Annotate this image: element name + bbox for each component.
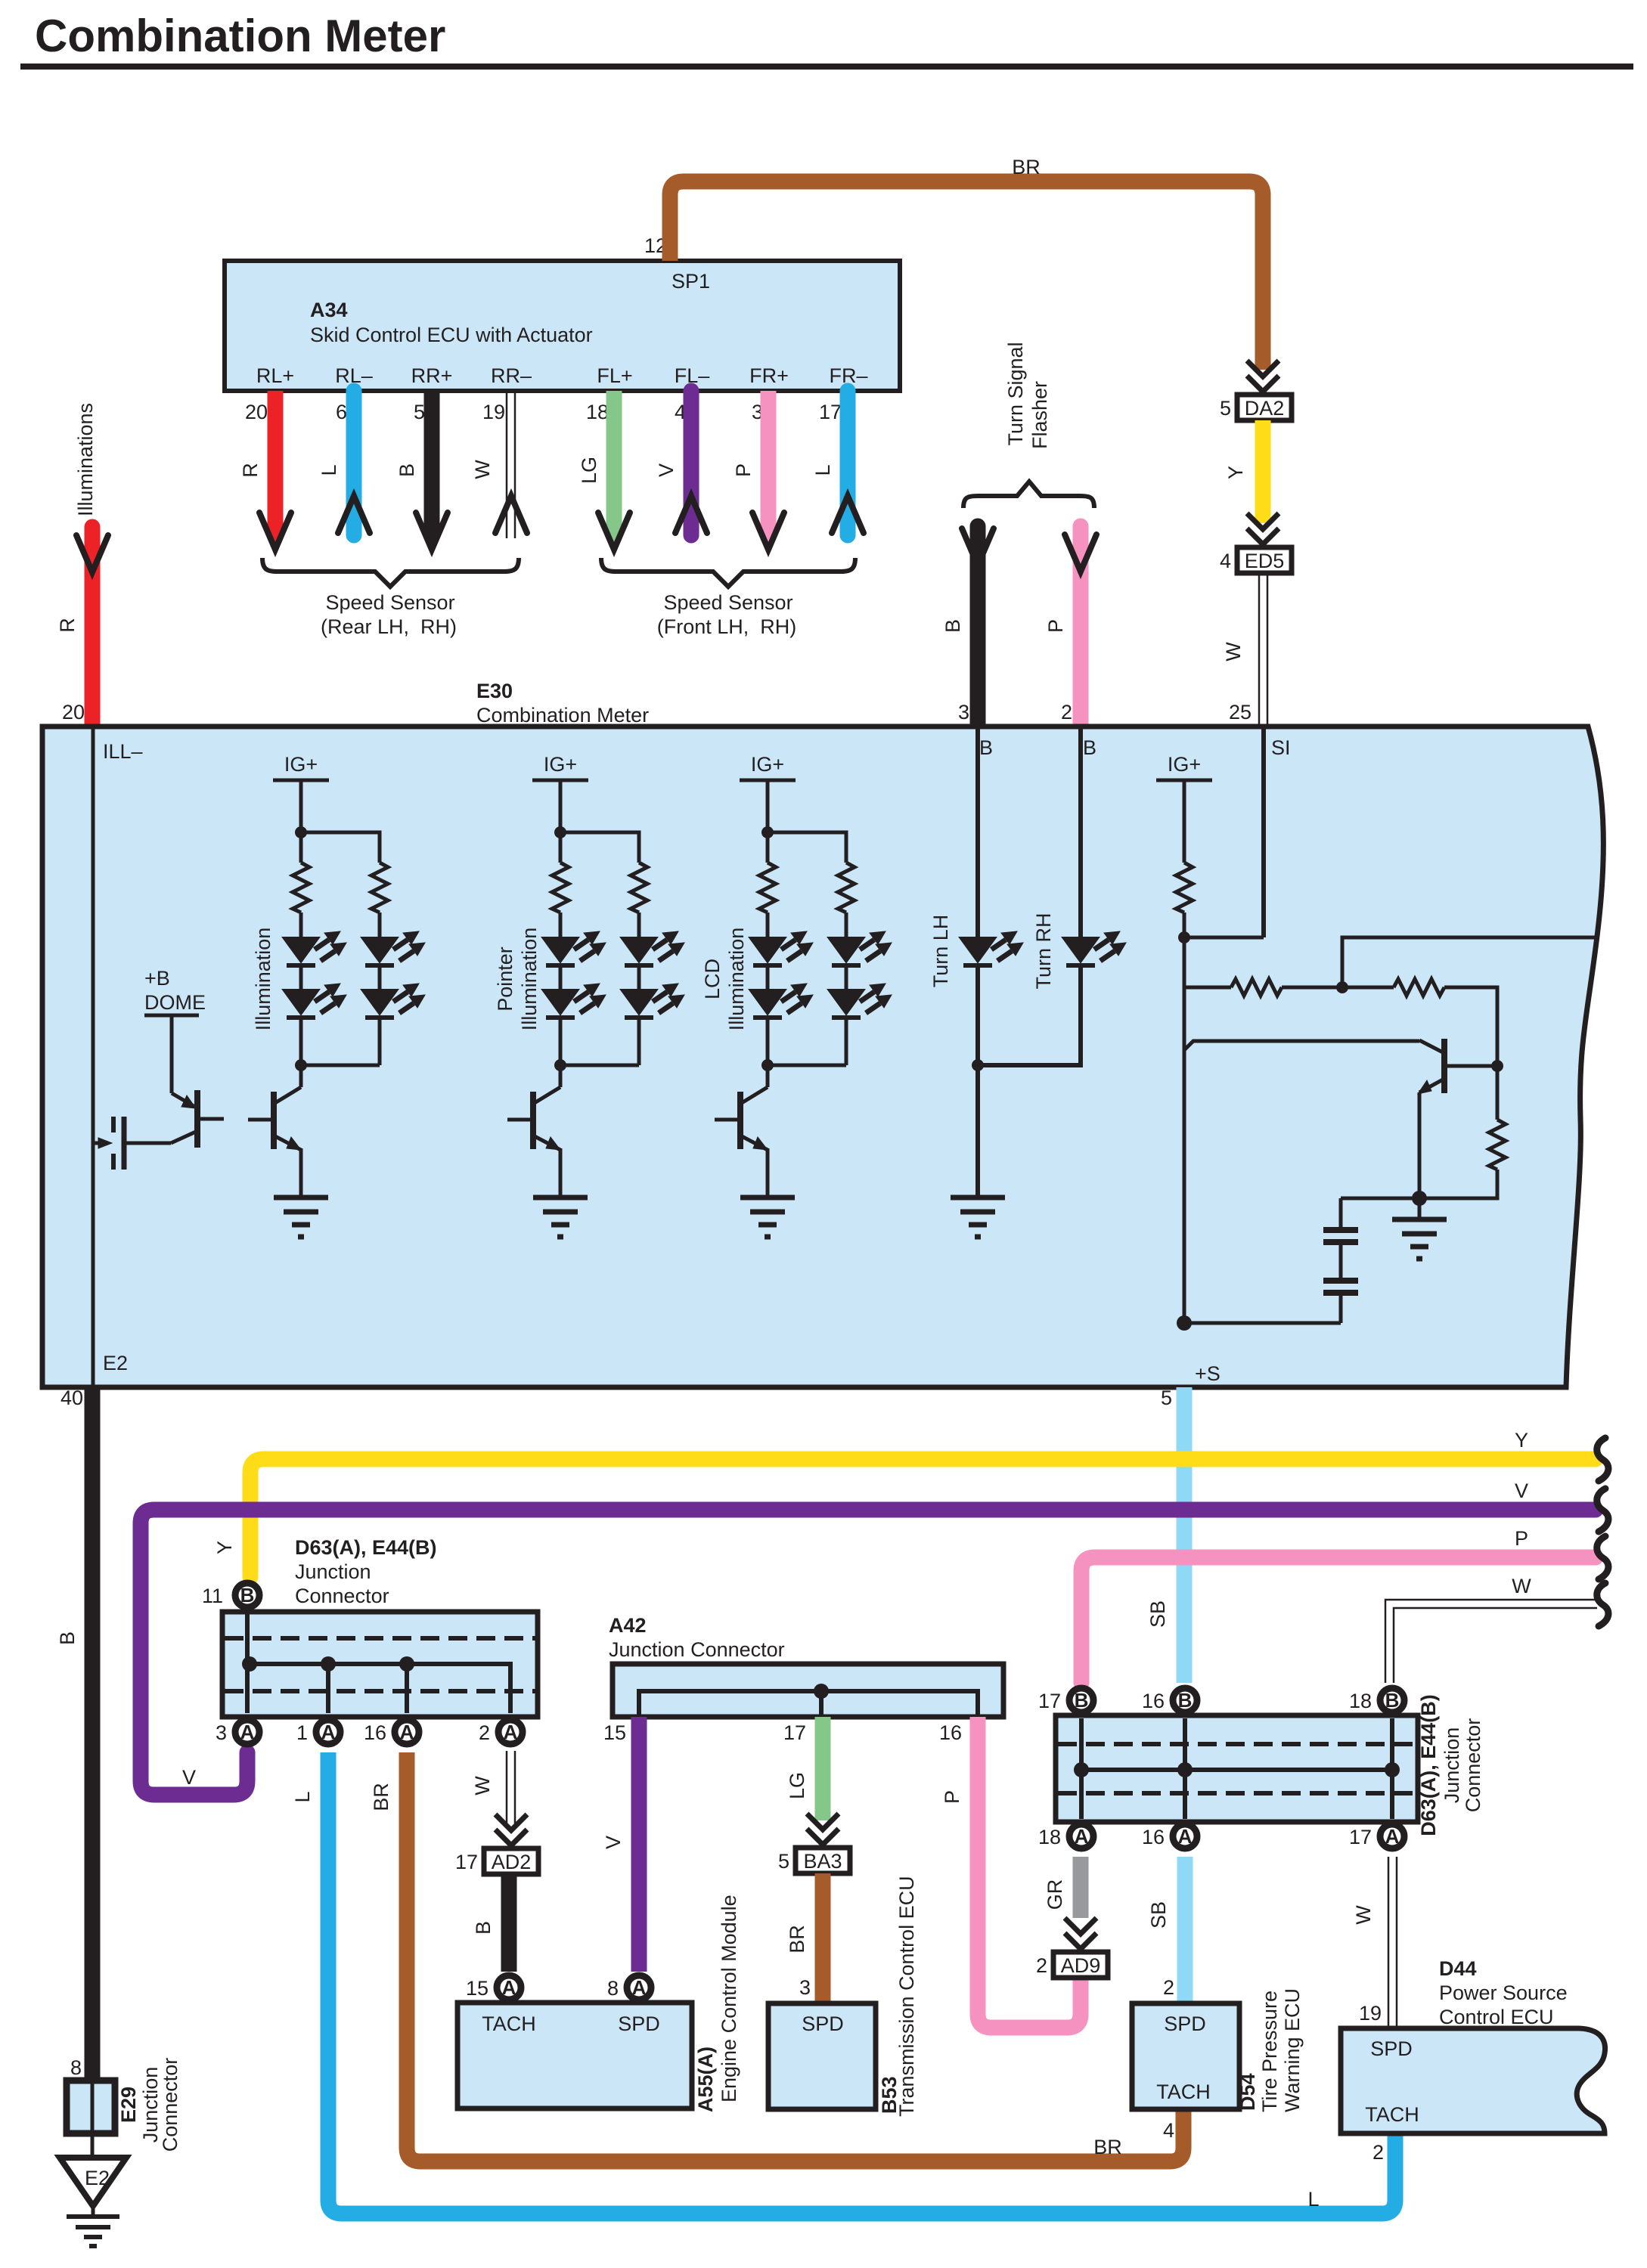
- transistor Q Pointer Illumination NPN: [507, 1087, 560, 1150]
- svg-text:W: W: [471, 1776, 494, 1795]
- svg-text:Skid Control ECU with Actuator: Skid Control ECU with Actuator: [310, 324, 593, 346]
- wire branch to second column LCD Illumination: [768, 832, 846, 863]
- label Turn Signal Flasher: [1004, 342, 1051, 449]
- pin circle 2 A: [479, 1720, 523, 1744]
- resistor R3 horizontal: [1231, 979, 1282, 996]
- connector ED5: [1237, 547, 1292, 573]
- svg-text:Combination Meter: Combination Meter: [476, 704, 649, 727]
- label BR on wire from D54 TACH pin 4: [1093, 2136, 1122, 2158]
- svg-text:3: 3: [216, 1721, 227, 1744]
- pin circle 11 B: [235, 1583, 259, 1607]
- svg-text:Control ECU: Control ECU: [1439, 2006, 1554, 2028]
- LED D2 Pointer Illumination: [542, 984, 606, 1018]
- wire LG from A42 pin 17: [786, 1717, 823, 1820]
- svg-text:RL+: RL+: [256, 364, 294, 387]
- wire node B up and right to edge: [1342, 937, 1597, 987]
- junction dot right bus 18: [1385, 1762, 1400, 1777]
- node IG+ right: [1156, 753, 1212, 780]
- double arrow into DA2: [1247, 361, 1279, 392]
- svg-text:ILL–: ILL–: [103, 740, 143, 763]
- wire resistor to LED right Illumination: [378, 912, 382, 937]
- wire L from pin 1A to D44 TACH pin 2: [291, 1752, 1395, 2214]
- svg-text:TACH: TACH: [1365, 2103, 1419, 2126]
- label D63(A), E44(B) Junction Connector left: [295, 1536, 437, 1607]
- bus wire A42: [639, 1691, 978, 1715]
- svg-text:E2: E2: [103, 1352, 128, 1374]
- arrow up on L wire: [338, 496, 370, 533]
- box D63 E44 junction connector left: [222, 1612, 538, 1717]
- title rule: [20, 64, 1633, 70]
- pin circle 8 A at A55: [607, 1975, 651, 2000]
- svg-text:Y: Y: [1224, 466, 1247, 479]
- wire W from RR- pin 19: [471, 391, 515, 538]
- svg-text:P: P: [732, 463, 755, 477]
- LED D2 Illumination: [283, 984, 346, 1018]
- node +B DOME bar: [144, 1014, 199, 1018]
- wire LED chain right LCD Illumination: [845, 965, 848, 1065]
- node IG+ Illumination: [273, 753, 329, 780]
- svg-text:20: 20: [62, 701, 85, 723]
- svg-text:V: V: [602, 1836, 625, 1849]
- wire IG+ to junction Pointer Illumination: [559, 780, 563, 863]
- svg-text:4: 4: [1220, 550, 1231, 572]
- wire LED chain left Pointer Illumination: [559, 965, 563, 1087]
- pin circle 15 A at A55: [466, 1975, 521, 2000]
- svg-text:6: 6: [336, 401, 347, 423]
- resistor R left Illumination: [293, 863, 309, 912]
- svg-text:E30: E30: [476, 680, 513, 702]
- LED D2 LCD Illumination: [749, 984, 813, 1018]
- svg-text:P: P: [1044, 619, 1067, 633]
- svg-text:V: V: [655, 463, 678, 477]
- wire resistor to LED right LCD Illumination: [845, 912, 848, 937]
- wire Turn RH to join: [978, 965, 1081, 1065]
- pin circle 16 A: [364, 1720, 419, 1744]
- svg-text:17: 17: [455, 1851, 478, 1873]
- svg-text:ED5: ED5: [1245, 550, 1285, 572]
- svg-text:B: B: [1083, 736, 1096, 759]
- bus line left junction connector: [245, 1614, 250, 1713]
- junction dot D: [1412, 1191, 1427, 1206]
- transistor MOSFET dimmer Q1: [93, 1117, 171, 1170]
- svg-text:Transmission Control ECU: Transmission Control ECU: [895, 1876, 918, 2117]
- svg-text:16: 16: [1142, 1690, 1165, 1712]
- svg-text:FL+: FL+: [597, 364, 632, 387]
- wave break V: [1597, 1489, 1608, 1532]
- svg-text:BR: BR: [1093, 2136, 1122, 2158]
- wire V lower section: [141, 1479, 1596, 1795]
- LED D4 LCD Illumination: [828, 984, 892, 1018]
- svg-text:L: L: [291, 1791, 314, 1802]
- svg-text:17: 17: [783, 1721, 806, 1744]
- svg-text:SPD: SPD: [618, 2012, 660, 2035]
- svg-text:W: W: [1222, 642, 1245, 661]
- svg-text:RR–: RR–: [491, 364, 532, 387]
- wire P turn signal to pin 2: [1044, 526, 1081, 727]
- svg-text:W: W: [471, 460, 494, 479]
- wire BR from BA3 to B53: [786, 1873, 823, 2003]
- svg-text:IG+: IG+: [751, 753, 784, 776]
- wire B turn signal to pin 3: [941, 526, 978, 727]
- svg-text:B: B: [56, 1631, 79, 1645]
- wire R from RL+ pin 20: [239, 391, 275, 531]
- wave break W: [1597, 1583, 1608, 1626]
- svg-text:18: 18: [1038, 1826, 1061, 1848]
- connector DA2: [1237, 395, 1292, 420]
- wire ILL- vertical: [91, 727, 95, 1387]
- svg-text:LG: LG: [578, 457, 600, 484]
- junction dot A42: [814, 1684, 829, 1699]
- wire resistor to LED left Pointer Illumination: [559, 912, 563, 937]
- connector AD9: [1053, 1952, 1108, 1978]
- svg-text:E2: E2: [85, 2167, 110, 2189]
- resistor R IG+ right: [1176, 863, 1193, 912]
- LED Turn LH: [960, 931, 1023, 965]
- pin circle 17 B right connector: [1038, 1688, 1093, 1712]
- double arrow into ED5: [1247, 513, 1279, 544]
- junction dot LCD Illumination: [761, 826, 774, 838]
- wire P from A42 pin 16 to AD9: [941, 1717, 1081, 2028]
- LED D1 Illumination: [283, 931, 346, 965]
- svg-text:IG+: IG+: [1168, 753, 1201, 776]
- svg-text:SI: SI: [1271, 736, 1291, 759]
- pin circle 3 A: [216, 1720, 259, 1744]
- wire BR from SP1 pin 12 to DA2: [670, 156, 1263, 370]
- resistor R right LCD Illumination: [838, 863, 855, 912]
- svg-text:FR+: FR+: [749, 364, 789, 387]
- svg-text:1: 1: [296, 1721, 308, 1744]
- svg-text:B: B: [472, 1921, 495, 1935]
- svg-text:3: 3: [799, 1976, 811, 1999]
- box E30 Combination Meter: [42, 727, 1603, 1387]
- arrow down on P wire: [761, 528, 775, 544]
- svg-text:DA2: DA2: [1245, 397, 1285, 420]
- wave break Y: [1597, 1438, 1608, 1481]
- box B53 Transmission Control ECU: [768, 2003, 876, 2109]
- dashed lines left junction connector: [225, 1638, 535, 1691]
- wave break P: [1597, 1536, 1608, 1579]
- wire Y lower section: [213, 1429, 1596, 1577]
- resistor R right Illumination: [371, 863, 388, 912]
- svg-text:A42: A42: [609, 1614, 647, 1637]
- svg-text:RR+: RR+: [411, 364, 453, 387]
- pin circle 16 A right connector: [1142, 1824, 1197, 1848]
- svg-text:Warning ECU: Warning ECU: [1281, 1988, 1304, 2112]
- label A55(A) Engine Control Module: [694, 1895, 740, 2112]
- svg-text:A55(A): A55(A): [694, 2046, 717, 2112]
- svg-text:Engine Control Module: Engine Control Module: [718, 1895, 740, 2102]
- transistor Q LCD Illumination NPN: [715, 1087, 768, 1150]
- svg-text:2: 2: [1163, 1976, 1174, 1999]
- resistor R5 vertical: [1489, 1120, 1506, 1170]
- bus wire and taps: [250, 1664, 510, 1713]
- LED D3 LCD Illumination: [828, 931, 892, 965]
- arrow down on R wire: [268, 528, 282, 544]
- LED Turn RH: [1062, 931, 1126, 965]
- pin circle 18 B right connector: [1349, 1688, 1404, 1712]
- svg-text:D44: D44: [1439, 1957, 1477, 1980]
- svg-text:V: V: [182, 1766, 196, 1789]
- svg-text:18: 18: [1349, 1690, 1372, 1712]
- svg-text:15: 15: [603, 1721, 626, 1744]
- svg-text:3: 3: [958, 701, 969, 723]
- wire LG from FL+ pin 18: [578, 391, 614, 531]
- wire emitter down: [1418, 1092, 1422, 1198]
- LED D1 LCD Illumination: [749, 931, 813, 965]
- box D63 E44 junction connector right: [1056, 1715, 1418, 1822]
- label Speed Sensor (Rear LH, RH): [321, 591, 457, 638]
- label Speed Sensor (Front LH, RH): [657, 591, 797, 638]
- svg-text:TACH: TACH: [1156, 2081, 1211, 2103]
- svg-text:Tire Pressure: Tire Pressure: [1258, 1991, 1281, 2112]
- wire bottom join Illumination: [301, 1064, 380, 1067]
- svg-text:Illuminations: Illuminations: [74, 403, 97, 516]
- svg-text:Illumination: Illumination: [252, 928, 274, 1031]
- svg-text:LCD: LCD: [701, 959, 724, 999]
- label E29 Junction Connector: [117, 2058, 181, 2152]
- svg-text:4: 4: [1163, 2119, 1174, 2142]
- svg-text:BR: BR: [786, 1925, 808, 1954]
- box D44 Power Source Control ECU: [1341, 2028, 1605, 2133]
- svg-text:20: 20: [245, 401, 268, 423]
- svg-text:L: L: [1307, 2188, 1319, 2211]
- svg-text:16: 16: [939, 1721, 962, 1744]
- wire P lower section: [1081, 1527, 1596, 1683]
- LED D3 Illumination: [361, 931, 425, 965]
- svg-text:D63(A), E44(B): D63(A), E44(B): [295, 1536, 437, 1559]
- transistor Q Illumination NPN: [248, 1087, 301, 1150]
- wire resistor to bottom row: [1341, 1170, 1497, 1198]
- brace speed sensor rear: [262, 558, 519, 587]
- svg-text:A34: A34: [310, 299, 348, 321]
- box A34 Skid Control ECU with Actuator: [225, 261, 900, 391]
- junction dot bus 16: [399, 1656, 414, 1672]
- arrow down on Illuminations wire: [76, 535, 108, 572]
- svg-text:(Front LH, RH): (Front LH, RH): [657, 615, 797, 638]
- svg-text:SB: SB: [1146, 1600, 1169, 1628]
- wire Turn LH from pin 3: [975, 727, 980, 937]
- arrow down on LG wire: [607, 528, 621, 544]
- resistor R left Pointer Illumination: [552, 863, 569, 912]
- label D44 Power Source Control ECU: [1439, 1957, 1568, 2028]
- svg-text:17: 17: [1038, 1690, 1061, 1712]
- svg-text:P: P: [941, 1790, 963, 1804]
- svg-text:Illumination: Illumination: [518, 928, 541, 1031]
- svg-text:D54: D54: [1236, 2073, 1259, 2111]
- svg-text:R: R: [56, 618, 79, 633]
- capacitor C2: [1323, 1281, 1358, 1293]
- junction dot C: [1491, 1060, 1503, 1072]
- svg-text:AD9: AD9: [1061, 1954, 1101, 1977]
- LED D1 Pointer Illumination: [542, 931, 606, 965]
- svg-text:BA3: BA3: [803, 1850, 842, 1873]
- svg-text:V: V: [1515, 1479, 1528, 1502]
- svg-text:Illumination: Illumination: [725, 928, 748, 1031]
- wire W lower section: [1385, 1600, 1597, 1683]
- svg-text:17: 17: [819, 401, 842, 423]
- svg-text:B: B: [941, 619, 964, 633]
- svg-text:Turn Signal: Turn Signal: [1004, 342, 1027, 445]
- pin circle 1 A: [296, 1720, 340, 1744]
- double arrow into AD9: [1065, 1918, 1096, 1949]
- svg-text:GR: GR: [1044, 1879, 1066, 1910]
- wire IG+ down right section: [1183, 780, 1186, 863]
- wire resistor to right column: [1444, 987, 1497, 1120]
- svg-text:LG: LG: [786, 1772, 808, 1799]
- svg-text:L: L: [811, 464, 834, 476]
- svg-text:Power Source: Power Source: [1439, 1981, 1568, 2004]
- junction dot right bus 17: [1074, 1762, 1089, 1777]
- svg-text:5: 5: [778, 1850, 789, 1873]
- svg-text:DOME: DOME: [144, 991, 206, 1014]
- wire L from RL- pin 6: [318, 391, 354, 535]
- svg-text:B: B: [979, 736, 993, 759]
- wire IG+ to junction Illumination: [299, 780, 303, 863]
- arrow down on B wire: [425, 528, 439, 544]
- junction dot Illumination: [295, 826, 307, 838]
- ground LCD Illumination: [740, 1198, 795, 1237]
- svg-text:19: 19: [482, 401, 505, 423]
- junction dot turn: [972, 1059, 984, 1071]
- box D54 Tire Pressure Warning ECU: [1132, 2003, 1239, 2109]
- junction dot bus 1: [321, 1656, 336, 1672]
- wire P from FR+ pin 3: [732, 391, 768, 531]
- svg-text:IG+: IG+: [284, 753, 318, 776]
- svg-text:SPD: SPD: [1370, 2037, 1413, 2060]
- resistor R left LCD Illumination: [759, 863, 776, 912]
- wire SB from +S pin 5: [1146, 1387, 1184, 1683]
- box A42 junction connector: [613, 1664, 1003, 1717]
- wire node A to SI: [1184, 936, 1264, 940]
- svg-text:8: 8: [607, 1977, 619, 2000]
- svg-text:Junction: Junction: [295, 1560, 371, 1583]
- svg-text:+B: +B: [144, 967, 170, 990]
- node IG+ LCD Illumination: [740, 753, 796, 780]
- svg-text:5: 5: [414, 401, 425, 423]
- svg-text:Flasher: Flasher: [1028, 381, 1051, 449]
- label B53 Transmission Control ECU: [878, 1876, 918, 2117]
- pin circle 16 B right connector: [1142, 1688, 1197, 1712]
- svg-text:2: 2: [1372, 2141, 1384, 2164]
- svg-text:2: 2: [1036, 1954, 1047, 1977]
- svg-text:Connector: Connector: [1462, 1718, 1484, 1813]
- label D54 Tire Pressure Warning ECU: [1236, 1988, 1304, 2112]
- svg-text:16: 16: [1142, 1826, 1165, 1848]
- junction dot B: [1336, 981, 1348, 993]
- wire LED chain left LCD Illumination: [766, 965, 770, 1087]
- wire W from pin 2A to AD2: [507, 1751, 515, 1823]
- arrow down on turn P wire: [1065, 534, 1096, 572]
- pin circle 17 A right connector: [1349, 1824, 1404, 1848]
- svg-text:19: 19: [1359, 2002, 1382, 2025]
- label L on wire from D44 TACH pin 2: [1307, 2188, 1319, 2211]
- svg-text:Turn RH: Turn RH: [1032, 912, 1055, 989]
- svg-text:B: B: [395, 463, 418, 477]
- ground turn signal: [951, 1198, 1005, 1237]
- svg-text:40: 40: [60, 1387, 83, 1409]
- svg-text:Junction: Junction: [1441, 1727, 1463, 1804]
- wire L from FR- pin 17: [811, 391, 848, 535]
- wire LED chain right Pointer Illumination: [637, 965, 641, 1065]
- wire emitter to ground Illumination: [299, 1148, 303, 1198]
- svg-text:Pointer: Pointer: [494, 947, 516, 1012]
- wire between resistors: [1282, 986, 1394, 990]
- svg-text:SPD: SPD: [802, 2012, 844, 2035]
- svg-text:D63(A), E44(B): D63(A), E44(B): [1417, 1694, 1440, 1836]
- svg-text:25: 25: [1229, 701, 1252, 723]
- ground Illumination: [274, 1198, 328, 1237]
- double arrow into AD2: [495, 1814, 527, 1845]
- wire V from FL- pin 4: [655, 391, 691, 535]
- wire resistor row start: [1184, 986, 1231, 990]
- junction dot right bus 16: [1177, 1762, 1193, 1777]
- svg-text:W: W: [1352, 1905, 1375, 1925]
- connector E29 junction connector: [67, 2080, 115, 2133]
- svg-text:R: R: [239, 463, 262, 478]
- junction dot bottom Illumination: [295, 1059, 307, 1071]
- svg-text:Y: Y: [1515, 1429, 1528, 1452]
- svg-text:W: W: [1512, 1575, 1531, 1597]
- bus wire right junction connector: [1081, 1718, 1392, 1819]
- svg-text:Connector: Connector: [159, 2058, 181, 2152]
- wire Turn RH from pin 2: [1078, 727, 1083, 937]
- connector AD2: [484, 1848, 538, 1874]
- wire bottom join LCD Illumination: [768, 1064, 846, 1067]
- svg-text:BR: BR: [370, 1783, 392, 1811]
- ground E2 triangle: [60, 2158, 126, 2246]
- junction dot E: [1177, 1315, 1192, 1331]
- svg-text:Speed Sensor: Speed Sensor: [325, 591, 454, 614]
- svg-text:17: 17: [1349, 1826, 1372, 1848]
- wire B from E2 pin 40: [56, 1387, 92, 2080]
- wire B from RR+ pin 5: [395, 391, 432, 531]
- dashed lines right junction connector: [1058, 1744, 1416, 1793]
- svg-text:IG+: IG+: [544, 753, 577, 776]
- svg-text:11: 11: [202, 1585, 223, 1607]
- svg-text:L: L: [318, 464, 340, 476]
- wire bottom join Pointer Illumination: [560, 1064, 639, 1067]
- wire GR from pin 18A to AD9: [1044, 1857, 1081, 1918]
- svg-text:Turn LH: Turn LH: [929, 915, 952, 988]
- svg-text:SP1: SP1: [672, 270, 710, 293]
- wire SB from pin 16A to D54: [1147, 1857, 1185, 2003]
- ground Pointer Illumination: [533, 1198, 588, 1237]
- wire B from AD2 to pin 15: [472, 1874, 509, 1972]
- svg-text:(Rear LH, RH): (Rear LH, RH): [321, 615, 457, 638]
- wire resistor to LED right Pointer Illumination: [637, 912, 641, 937]
- arrow down on turn B wire: [962, 528, 994, 565]
- svg-text:Connector: Connector: [295, 1585, 389, 1607]
- junction dot bottom Pointer Illumination: [554, 1059, 566, 1071]
- node IG+ Pointer Illumination: [532, 753, 588, 780]
- svg-text:BR: BR: [1012, 156, 1041, 178]
- label A42 Junction Connector: [609, 1614, 785, 1661]
- svg-text:+S: +S: [1195, 1362, 1221, 1385]
- svg-text:E29: E29: [117, 2087, 140, 2123]
- wire LED chain left Illumination: [299, 965, 303, 1087]
- svg-text:TACH: TACH: [482, 2012, 536, 2035]
- svg-text:P: P: [1515, 1527, 1528, 1550]
- junction dot Pointer Illumination: [554, 826, 566, 838]
- svg-text:5: 5: [1220, 397, 1231, 420]
- pin circle 18 A right connector: [1038, 1824, 1093, 1848]
- svg-text:SPD: SPD: [1164, 2012, 1206, 2035]
- label +B DOME: [144, 967, 206, 1014]
- junction dot bus 3: [242, 1656, 257, 1672]
- svg-text:Y: Y: [213, 1541, 236, 1554]
- wire SI vertical: [1261, 727, 1266, 937]
- wire IG+ to junction LCD Illumination: [766, 780, 770, 863]
